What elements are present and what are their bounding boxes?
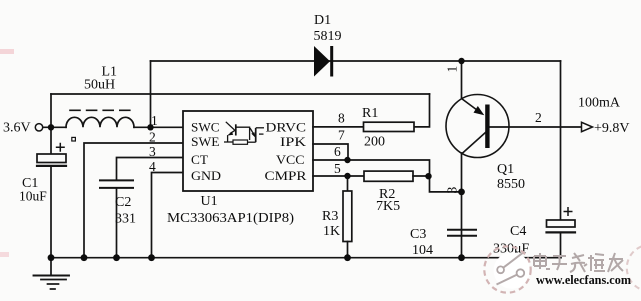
capacitor C4 plates [547,220,576,227]
svg-text:Q1: Q1 [497,162,514,177]
svg-text:8: 8 [338,110,345,125]
svg-text:C4: C4 [510,224,526,239]
svg-text:GND: GND [191,168,221,183]
watermark [484,245,641,293]
svg-text:5819: 5819 [314,29,342,44]
svg-text:MC33063AP1(DIP8): MC33063AP1(DIP8) [167,211,294,226]
ground rail dots [48,254,55,261]
wire R3 bottom lead [347,242,349,258]
svg-text:CMPR: CMPR [265,168,307,183]
wire pin8 lead [313,126,364,128]
svg-text:3: 3 [149,144,156,159]
svg-text:200: 200 [364,134,385,149]
wire pin6 run [313,160,430,176]
svg-text:DRVC: DRVC [266,119,307,134]
svg-text:C3: C3 [410,227,426,242]
wire pin7 jumper to pin6 [313,144,348,160]
wire R2 right lead [413,175,430,177]
svg-text:R1: R1 [362,106,378,121]
input terminal 3.6V [35,124,42,131]
svg-text:7K5: 7K5 [376,199,400,214]
node D1 cathode / Q1 top [458,58,464,64]
svg-text:www.elecfans.com: www.elecfans.com [536,273,632,287]
inductor L1 [66,117,134,127]
output arrow terminal [582,122,593,131]
polarity square mark [72,137,76,141]
wire C1 top [50,127,52,154]
svg-text:1: 1 [445,66,460,73]
wire pin4 to ground [152,173,184,258]
transistor Q1 internals [462,99,490,155]
wire top rail right drop to C4 [560,61,562,220]
transistor Q1 body circle [446,95,509,158]
svg-text:3: 3 [445,187,460,194]
artifact pink smudge left [0,49,14,54]
svg-text:104: 104 [412,243,433,258]
resistor R3 [343,191,352,242]
watermark chinese glyph strokes [534,253,623,272]
wire inductor to node1 [134,126,151,128]
watermark dashed circle 2 partial [627,245,641,291]
node R2 right [425,173,431,179]
node pin5/R3 [344,173,350,179]
wire Q1 base output line [490,126,582,128]
svg-text:2: 2 [535,110,542,125]
svg-text:SWC: SWC [191,119,220,134]
capacitor C1 plus sign [56,143,573,216]
wire pin2 to ground [84,143,183,258]
svg-text:50uH: 50uH [84,77,115,92]
svg-text:8550: 8550 [497,177,525,192]
svg-text:D1: D1 [314,13,331,28]
capacitor C2 plates [100,179,133,181]
wire ground rail [51,257,561,259]
node pin6/pin7 [344,157,350,163]
wire node pin1 vertical [150,61,152,127]
svg-text:C2: C2 [115,195,131,210]
inductor core dashed line [70,109,132,111]
svg-text:331: 331 [115,212,136,227]
svg-text:IPK: IPK [280,134,307,149]
wire C1 bottom [50,166,52,258]
svg-text:7: 7 [338,128,345,143]
svg-text:5: 5 [334,161,341,176]
wire R3 top lead [347,176,349,191]
svg-text:VCC: VCC [276,152,305,167]
Q1 collector diagonal with arrow [462,99,482,114]
wire top rail [151,60,561,62]
internal resistor box [233,140,248,144]
wire input to inductor [43,126,66,128]
svg-text:U1: U1 [201,194,218,209]
wire Q1 collector drop [461,61,463,99]
node VIN [48,124,54,130]
capacitor C4 plus sign [564,207,573,216]
wire C2 bottom [116,188,118,258]
node emitter junction [458,189,465,196]
op IC U1 box [183,111,313,191]
capacitor C3 plates [448,229,476,231]
Q1 base bar [485,105,489,149]
ground symbol [50,258,52,275]
resistor R1 [364,122,415,131]
IC pin names [191,119,307,183]
internal emitter arrows [227,132,233,136]
wire Q1 emitter down [461,153,463,258]
svg-text:100mA: 100mA [578,96,621,111]
svg-text:4: 4 [149,159,156,174]
svg-text:R3: R3 [322,209,338,224]
watermark dashed circle 1 [484,246,530,292]
wire node to emitter [430,176,462,192]
svg-text:SWE: SWE [191,134,220,149]
capacitor C1 plates [37,154,66,163]
wire VIN riser [50,94,52,127]
wire drop to R1 right [414,94,430,127]
resistor R2 [364,171,413,181]
IC internal darlington doodle [224,122,264,142]
svg-text:10uF: 10uF [19,189,47,204]
diode D1 [314,46,332,77]
svg-text:2: 2 [149,130,156,145]
node L1/pin1 [147,124,153,130]
wire pin3 to C2 [117,158,184,181]
wire pin5 lead [313,175,364,177]
wire VIN top feed rail [51,93,430,95]
svg-text:6: 6 [334,144,341,159]
svg-text:+9.8V: +9.8V [594,121,630,136]
svg-text:CT: CT [191,152,208,167]
svg-text:1: 1 [151,113,158,128]
wire C4 bottom [560,232,562,257]
Q1 emitter diagonal [462,132,487,154]
svg-text:1K: 1K [323,224,340,239]
svg-text:3.6V: 3.6V [3,121,31,136]
watermark logo white disc [494,252,530,288]
wire pin1 lead [151,126,184,128]
